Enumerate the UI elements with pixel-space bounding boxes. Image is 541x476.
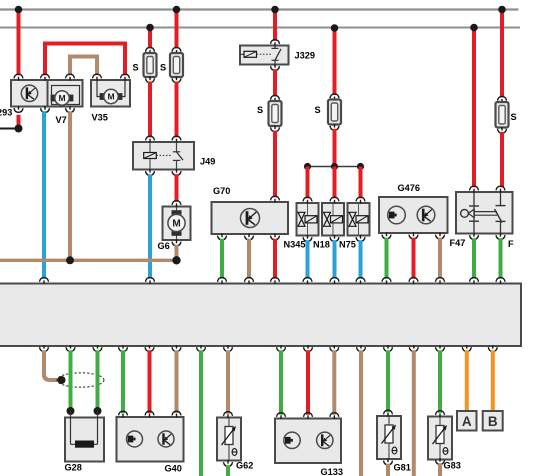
node 293 junction (15, 125, 23, 133)
wire green ECU->G28 right (96, 350, 100, 409)
wire brown G83->bottom (438, 463, 442, 476)
sensor G476 (379, 197, 448, 233)
wire green G70->ECU (220, 239, 224, 279)
wire brown ECU->G133 (332, 350, 336, 415)
wire red link->N345 (306, 167, 310, 199)
wire blue V7->ECU (42, 111, 46, 279)
svg-text:G28: G28 (65, 463, 82, 473)
svg-text:N75: N75 (339, 240, 356, 250)
fuse S5 (498, 96, 507, 100)
svg-text:J329: J329 (295, 51, 315, 61)
temp sensor G62 (217, 418, 241, 461)
node link x360.5 (357, 163, 364, 170)
svg-text:M: M (58, 93, 65, 103)
wire red G70->ECU (273, 239, 277, 279)
svg-text:G40: G40 (165, 464, 182, 474)
node junction bus2 x474 (470, 24, 478, 32)
svg-text:N18: N18 (313, 240, 330, 250)
node brown junction x176.5 (172, 256, 180, 264)
wire red 293 stub (17, 115, 21, 127)
wire green ECU->G133 (279, 350, 283, 415)
wire green G476->ECU (385, 238, 389, 279)
svg-text:V7: V7 (56, 115, 67, 125)
node junction bus2 x334.5 (331, 24, 339, 32)
hall sender G133 (275, 419, 341, 464)
wire brown ECU->G40 (175, 350, 179, 413)
node junction top bus x502 (498, 6, 506, 14)
wire green F->ECU (499, 238, 503, 279)
wire blue J49->ECU (148, 174, 152, 279)
relay J329 (240, 46, 289, 65)
wire red bus->J329 (273, 10, 277, 41)
motor V35 (91, 80, 130, 107)
wire red fuse S5->F (500, 132, 504, 187)
temp sensor G83 (428, 417, 452, 460)
hall sender G40 (117, 417, 184, 462)
wire link bar above N valves (308, 166, 361, 168)
wire blue N75->ECU (359, 240, 363, 279)
wire brown G6->line (175, 245, 179, 261)
svg-text:G62: G62 (236, 461, 253, 471)
valve N75 (348, 203, 370, 236)
ECU control unit bar (0, 284, 521, 347)
svg-text:G81: G81 (394, 463, 411, 473)
wire brown G476->ECU (438, 238, 442, 279)
svg-text:S: S (315, 105, 321, 115)
node junction top bus x176.5 (173, 6, 181, 14)
svg-text:S: S (257, 105, 263, 115)
wire: plus bus 30 (top rail) (0, 8, 519, 10)
ECU top terminals (40, 278, 49, 282)
svg-text:S: S (133, 63, 139, 73)
wire green ECU->G28 left (69, 350, 73, 409)
wire red bridge V7->V35 (45, 44, 125, 76)
wire red bus->293 box (17, 10, 21, 76)
wire brown ECU->bottom x361 (359, 350, 363, 476)
svg-text:M: M (107, 92, 114, 102)
wire red fuse S4->link (333, 129, 337, 167)
wire orange ECU->B (491, 350, 495, 412)
node brown junction x70 (66, 256, 74, 264)
wire brown V7->brown line (68, 111, 72, 260)
wire orange ECU->A (465, 350, 469, 412)
wire green ECU->G83 (438, 350, 442, 413)
wire red bus->fuse S2 (175, 10, 179, 49)
wire brown ECU->bottom x413.8 (412, 350, 416, 476)
temp sensor G81 (377, 416, 401, 459)
wire red bus2->fuse S4 (333, 28, 337, 96)
wire black to left edge node 293 (0, 128, 19, 130)
svg-text:G6: G6 (158, 241, 170, 251)
wire blue N18->ECU (333, 240, 337, 279)
svg-text:V35: V35 (92, 113, 108, 123)
wire red ECU->G40 (148, 350, 152, 413)
node junction top bus x275 (271, 6, 279, 14)
valve N18 (322, 203, 344, 236)
wire: bus rail 2 (0, 27, 520, 29)
svg-text:N345: N345 (284, 240, 306, 250)
wire brown bridge V7->V35 (70, 57, 97, 76)
node link x307.5 (304, 163, 311, 170)
svg-text:M: M (172, 219, 180, 230)
wire green ECU->G81 (386, 350, 390, 412)
wire green ECU->bottom x201 (199, 350, 203, 476)
wire brown ECU->G62 (226, 350, 230, 414)
wire blue N345->ECU (306, 240, 310, 279)
node shield junction (58, 376, 66, 384)
compressor clutch box (293) (11, 80, 48, 107)
svg-text:G133: G133 (321, 467, 343, 476)
fuse S1 (146, 47, 155, 51)
wire green G62->bottom (226, 465, 230, 476)
wire brown G81->bottom (386, 464, 390, 476)
wire green F47->ECU (472, 238, 476, 279)
wire brown ECU->shield (44, 350, 60, 380)
wire red fuse S1->J49 (148, 82, 152, 138)
node junction on top bus x18.5 (15, 6, 23, 14)
wire red fuse S2->J49 (175, 82, 179, 138)
wire red J329->fuse S3 (273, 69, 277, 96)
svg-text:293: 293 (0, 108, 12, 118)
svg-text:S: S (160, 63, 166, 73)
svg-text:F: F (508, 239, 514, 249)
wire green ECU->G40 (121, 350, 125, 413)
relay J49 (133, 142, 194, 170)
svg-text:G70: G70 (213, 186, 230, 196)
svg-text:A: A (462, 414, 472, 429)
node G28 right (94, 407, 102, 415)
wire brown G70->ECU (247, 239, 251, 279)
wire red G476->ECU (412, 238, 416, 279)
ECU bottom terminals (43, 345, 45, 348)
wire red bus2->F (472, 28, 476, 188)
node junction bus2 x150 (146, 24, 154, 32)
speed sensor G28 (65, 418, 104, 462)
wire red bus->fuse S5 (500, 10, 504, 98)
svg-text:F47: F47 (450, 238, 466, 248)
svg-text:G83: G83 (444, 461, 461, 471)
wire red link->N75 (359, 167, 363, 199)
wire red ECU->G133 (306, 350, 310, 415)
node G28 left (67, 407, 75, 415)
shield ellipse (57, 373, 104, 387)
motor G6 (163, 207, 191, 241)
fuse S3 (271, 95, 280, 99)
pressure switch F/F47 (456, 192, 513, 234)
node link x334.5 (331, 163, 338, 170)
fuse S2 (172, 47, 181, 51)
svg-text:G476: G476 (398, 183, 420, 193)
wire brown horizontal line (0, 259, 177, 262)
wire red fuse S3->G70 (273, 131, 277, 198)
valve N345 (297, 203, 319, 236)
wire red bus2->fuse S1 (148, 28, 152, 49)
wire red link->N18 (333, 167, 337, 199)
fuse S4 (330, 94, 339, 98)
svg-text:B: B (488, 414, 498, 429)
connector A (457, 411, 477, 431)
air mass meter G70 (212, 202, 289, 234)
wire red J49->G6 (175, 174, 179, 202)
connector B (483, 411, 503, 431)
svg-text:J49: J49 (200, 157, 215, 167)
motor V7 (48, 80, 83, 107)
svg-text:S: S (511, 112, 517, 122)
